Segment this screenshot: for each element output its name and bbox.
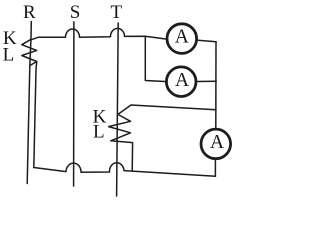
ammeter A2 <box>166 67 196 97</box>
wire: A2 right to right vertical <box>197 80 216 82</box>
svg-text:L: L <box>93 122 105 143</box>
wire: bottom return horizontal, hops over S and T <box>34 163 216 176</box>
svg-text:T: T <box>110 2 122 23</box>
wire: top horizontal from K (R) to ammeters, hops over S and T <box>31 28 166 39</box>
svg-text:A: A <box>210 132 224 153</box>
wire: phase R bus <box>27 22 31 184</box>
wire: A3 bottom to return <box>214 160 216 176</box>
zigzag cut K-L on R line <box>22 39 37 65</box>
zigzag cut K-L on T line <box>109 114 131 140</box>
svg-text:S: S <box>70 2 81 23</box>
wire: A1 right to right-side vertical <box>198 40 216 42</box>
ammeter A1 <box>167 24 197 54</box>
wire: phase S bus <box>73 22 75 186</box>
svg-text:A: A <box>175 70 189 91</box>
wire: middle K to right vertical <box>118 105 216 114</box>
wire: left L return vertical <box>34 62 37 168</box>
wire: phase T bus <box>117 23 119 196</box>
svg-text:A: A <box>175 27 189 48</box>
svg-text:R: R <box>23 2 36 23</box>
ammeter A3 <box>201 129 231 159</box>
wire: middle L down to bottom return <box>111 141 133 170</box>
svg-text:L: L <box>3 44 15 65</box>
wire: right-side vertical down to A3 top <box>215 42 217 128</box>
wire: branch down to ammeter A2 <box>145 36 165 81</box>
